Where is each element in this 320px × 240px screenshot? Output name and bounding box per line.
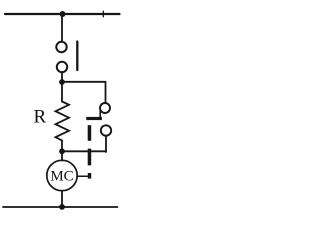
svg-text:R: R (33, 106, 46, 127)
svg-text:MC: MC (50, 168, 73, 184)
